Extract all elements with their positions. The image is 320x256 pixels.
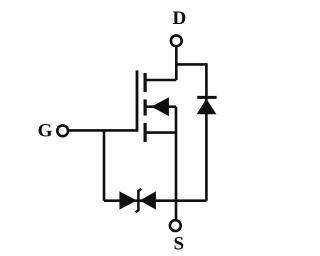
terminal D [171, 35, 182, 46]
diode D1 cathode bar [197, 96, 216, 99]
transistor Q1 source stub [147, 131, 177, 134]
transistor Q1 gate bar [136, 70, 139, 130]
wire top branch to diode [176, 63, 206, 66]
wire source row [104, 199, 206, 202]
transistor Q1 channel dash 3 [144, 123, 147, 142]
diode D1 triangle [197, 99, 217, 114]
transistor Q1 body stub [147, 105, 177, 108]
wire drain stub [145, 79, 177, 82]
transistor Q1 channel dash 1 [144, 73, 147, 92]
wire right branch vertical [205, 63, 208, 201]
svg-text:G: G [38, 121, 53, 142]
zener Z1 right triangle [140, 191, 156, 209]
junction node (gate/zener) vertical [103, 130, 106, 200]
zener Z1 left triangle [119, 191, 136, 209]
wire drain vertical [175, 47, 178, 80]
wire body/source vertical [175, 107, 178, 220]
terminal S [170, 220, 181, 231]
zener Z1 bar [136, 189, 142, 213]
wire gate horizontal [68, 129, 138, 132]
transistor Q1 channel dash 2 [144, 99, 147, 115]
terminal G [57, 125, 68, 136]
svg-text:S: S [174, 233, 185, 254]
transistor Q1 body arrow [151, 97, 169, 116]
svg-text:D: D [173, 8, 187, 29]
